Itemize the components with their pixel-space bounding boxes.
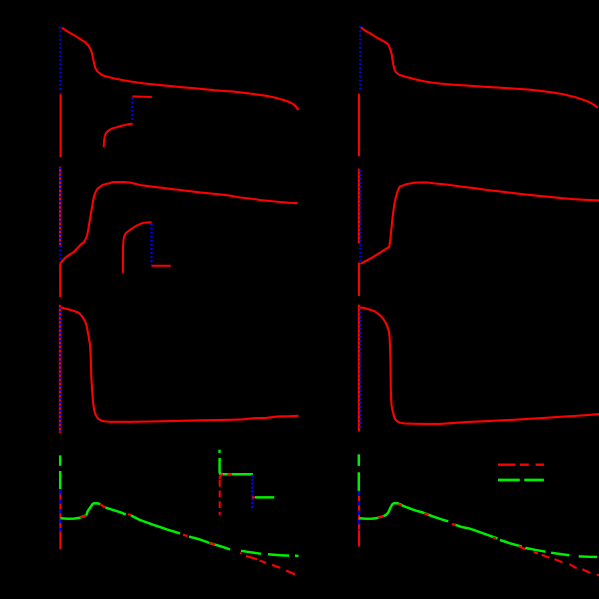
panel L1 mini red curve	[104, 124, 133, 148]
panel R2 red temperature curve	[361, 182, 599, 264]
panel L4 green temperature curve	[61, 503, 231, 549]
panel R2 red vertical line	[358, 169, 360, 296]
panel L1 red vertical line	[60, 94, 62, 157]
panel L4 inset red dash at lower level	[252, 496, 255, 498]
panel L2 mini red horizontal	[151, 265, 170, 267]
panel L4 inset green vertical and plateau	[220, 458, 253, 474]
panel L4 red dash overlays on curve	[80, 505, 215, 545]
panel L4 red dashed tail	[240, 553, 295, 574]
panel L2 red vertical line	[59, 167, 61, 297]
panel R1 blue dotted vertical	[359, 26, 361, 91]
panel L4 inset red corner curve	[220, 474, 223, 479]
panel R4 red dash overlays on curve	[378, 504, 526, 549]
legend green dashed line	[498, 479, 544, 482]
panel L4 inset red dash on plateau	[228, 473, 233, 475]
legend red dashed line	[498, 464, 544, 466]
panel R2 blue dotted vertical	[359, 170, 361, 262]
panel R3 red vertical line	[358, 305, 360, 432]
panel L4 green dashed vertical	[59, 455, 62, 489]
panel L4 green dashed tail	[241, 551, 299, 556]
panel L2 red temperature curve	[61, 182, 298, 263]
panel L2 mini blue dotted vertical	[150, 223, 152, 264]
panel L2 blue dotted vertical	[59, 168, 61, 264]
panel R4 green dashed vertical	[358, 454, 361, 491]
panel L1 blue dotted vertical (breakout radius)	[59, 27, 61, 93]
panel L4 inset blue dotted vertical	[251, 475, 254, 510]
panel L4 inset green lower horizontal	[255, 496, 274, 499]
panel R4 blue dotted vertical	[357, 492, 360, 531]
panel R3 red curve	[360, 307, 599, 424]
panel R1 red vertical line	[358, 94, 360, 157]
panel L3 red vertical line	[59, 305, 61, 433]
panel R3 blue dotted vertical	[359, 307, 361, 430]
panel L1 mini red plateau	[132, 95, 151, 98]
panel L2 mini red curve	[123, 222, 152, 273]
panel R4 red vertical line	[358, 491, 360, 547]
panel L1 mini blue dotted vertical	[131, 98, 133, 122]
panel L4 inset green dash top	[218, 450, 221, 453]
panel R4 red dashed tail	[534, 552, 599, 576]
panel R4 green temperature curve	[359, 503, 522, 546]
panel L4 inset red dashed vertical	[219, 480, 221, 515]
panel L3 blue dotted vertical	[59, 307, 61, 431]
panel L4 blue dotted vertical	[59, 490, 62, 532]
panel L1 red luminosity curve	[62, 28, 299, 110]
panel R4 green dashed tail	[525, 548, 597, 557]
panel R1 red luminosity curve	[361, 27, 598, 107]
panel L3 red curve	[61, 308, 299, 422]
panel L4 red vertical line	[59, 490, 61, 550]
